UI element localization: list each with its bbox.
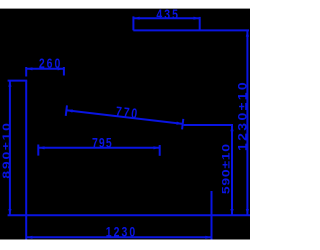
wire: floor line (8, 214, 250, 216)
wire: left wall object line (25, 81, 27, 240)
arrowhead 770 left (66, 109, 73, 113)
wire: extension tick 795 right (159, 145, 161, 156)
arrowhead 770 right (176, 122, 183, 126)
dimension line 435 (133, 17, 199, 19)
wire: extension tick 795 left (37, 145, 39, 156)
arrowhead 1230 right bottom (246, 209, 249, 215)
arrowhead 890 top (8, 81, 11, 87)
dimension 770 sloped group (66, 105, 184, 129)
dimension line 590 vertical (231, 125, 233, 215)
wire: extension line bottom right (211, 191, 213, 240)
arrowhead 260 right (58, 67, 64, 70)
svg-text:795: 795 (92, 135, 113, 151)
arrowhead 795 right (154, 146, 160, 149)
arrowhead 1230 bottom left (26, 236, 32, 239)
wire: extension line 435 right (199, 17, 201, 31)
wire: extension tick 770 left (66, 105, 67, 116)
svg-text:260: 260 (39, 56, 63, 72)
svg-text:1230±10: 1230±10 (236, 80, 250, 151)
arrowhead 1230 right top (246, 30, 249, 36)
wire: extension tick 260 right (63, 67, 65, 76)
dimension line 890 vertical (9, 81, 11, 216)
wire: canopy top line (133, 29, 249, 31)
wire: extension tick 260 left (25, 67, 27, 77)
arrowhead 590 bottom (230, 209, 233, 215)
svg-text:435: 435 (156, 6, 180, 22)
arrowhead 590 top (230, 125, 233, 131)
drawing canvas background (0, 9, 250, 240)
dimension line 1230 bottom (26, 236, 211, 238)
wire: deck line (184, 124, 233, 126)
arrowhead 890 bottom (8, 209, 11, 215)
arrowhead 435 left (133, 17, 139, 20)
arrowhead 1230 bottom right (205, 236, 211, 239)
wire: extension tick 770 right (182, 119, 183, 130)
svg-text:890±10: 890±10 (0, 121, 12, 178)
svg-text:1230: 1230 (106, 224, 137, 240)
wire: extension line 890 top (8, 80, 28, 82)
arrowhead 795 left (38, 146, 44, 149)
dimension line 770 (66, 110, 182, 124)
arrowhead 435 right (194, 17, 200, 20)
wire: extension line 435 left (132, 16, 134, 30)
arrowhead 260 left (26, 67, 32, 70)
dimension line 1230 right vertical (246, 30, 248, 215)
dimension line 260 (26, 68, 64, 70)
svg-text:590±10: 590±10 (220, 143, 232, 194)
dimension line 795 (38, 147, 159, 149)
svg-text:770: 770 (115, 104, 140, 122)
